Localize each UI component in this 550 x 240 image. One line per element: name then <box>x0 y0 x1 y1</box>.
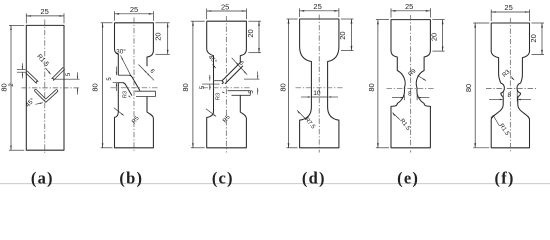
svg-text:10: 10 <box>313 90 321 97</box>
bottom grip (b) <box>115 83 154 148</box>
centerline horizontal (f) <box>486 88 536 90</box>
inclined slot from upper right (c) <box>222 63 240 81</box>
bottom grip (c) <box>207 81 247 148</box>
svg-text:R3: R3 <box>123 91 129 98</box>
svg-text:25: 25 <box>130 5 138 14</box>
svg-text:80: 80 <box>367 83 376 91</box>
svg-text:2: 2 <box>9 83 15 87</box>
dim 6 across strip (c) <box>232 58 247 75</box>
svg-text:(c): (c) <box>212 169 234 188</box>
centerline vertical (c) <box>225 16 227 153</box>
svg-text:20: 20 <box>338 31 347 39</box>
V-slot chevron (a) inner edge <box>35 91 57 102</box>
label R7.5 with leader (d) <box>297 110 300 113</box>
centerline vertical (f) <box>509 18 511 153</box>
svg-text:25: 25 <box>504 3 512 12</box>
svg-text:(e): (e) <box>397 169 419 188</box>
dim 25 top <box>490 10 492 22</box>
right slot bottom edge / tab (b) <box>136 96 156 98</box>
svg-text:(b): (b) <box>119 169 143 188</box>
svg-text:20: 20 <box>153 32 162 40</box>
centerline horizontal (e) <box>387 87 436 89</box>
svg-text:20: 20 <box>529 34 538 42</box>
dim 20 right <box>341 18 354 20</box>
svg-text:5: 5 <box>249 90 255 94</box>
centerline horizontal (b) <box>111 87 158 89</box>
dim 25 top <box>114 11 116 20</box>
svg-text:R7.5: R7.5 <box>303 117 316 131</box>
svg-text:R1.5: R1.5 <box>498 123 511 137</box>
centerline horizontal (c) <box>203 87 251 89</box>
svg-text:R9: R9 <box>407 67 418 78</box>
slot upper-left (a) <box>26 73 37 84</box>
svg-text:R5: R5 <box>131 115 141 125</box>
panel (a) specimen outline rectangle <box>26 25 64 150</box>
svg-text:R5: R5 <box>222 114 232 124</box>
dim 6 across strip (b) <box>139 65 155 81</box>
panel (f) specimen outline (notched R3) <box>491 23 529 148</box>
left slot top edge (b) <box>118 74 129 76</box>
svg-text:5: 5 <box>200 85 206 89</box>
dim 25 top <box>299 8 301 17</box>
slot upper-right (a) <box>52 67 64 78</box>
centerline vertical (e) <box>410 15 412 153</box>
svg-text:5: 5 <box>107 77 113 81</box>
label R5 with leader (b) <box>114 108 124 116</box>
svg-text:R3: R3 <box>216 93 222 100</box>
left slot lower edge (b) <box>118 82 123 84</box>
label R1.5 with leader (e) <box>393 113 396 116</box>
svg-text:80: 80 <box>278 83 287 91</box>
dim 2 left (a) <box>17 69 26 71</box>
centerline vertical (d) <box>318 15 320 153</box>
right slot top edge (b) <box>135 90 156 92</box>
dim 25 top <box>25 13 27 23</box>
dim 80 left <box>191 20 205 22</box>
svg-text:25: 25 <box>40 7 48 16</box>
left slot edges (c) <box>214 80 222 82</box>
dim 80 left <box>9 24 24 26</box>
dim 80 left <box>101 22 113 24</box>
svg-text:45°: 45° <box>24 96 37 109</box>
dim 10 neck (d) <box>301 96 310 98</box>
svg-text:8: 8 <box>408 91 412 98</box>
dim 25 top <box>206 9 208 20</box>
panel (b) specimen outline <box>115 23 154 67</box>
svg-text:30°: 30° <box>116 47 126 55</box>
panel (e) specimen outline (notched R9) <box>391 20 430 148</box>
svg-text:R1.5: R1.5 <box>398 118 411 132</box>
svg-text:(d): (d) <box>302 169 326 188</box>
svg-text:25: 25 <box>221 2 229 11</box>
dim 20 right <box>155 22 169 24</box>
right slot edges (c) <box>228 90 251 92</box>
svg-text:80: 80 <box>91 83 100 91</box>
dim 5 left (b) <box>113 82 123 84</box>
dim 5 right of strip (c) <box>244 78 260 80</box>
V-slot tip caps (a) <box>35 89 37 91</box>
svg-text:6: 6 <box>238 60 245 67</box>
label R1.5 with leader (f) <box>491 115 494 119</box>
svg-text:20: 20 <box>246 29 255 37</box>
centerline horizontal (a) <box>22 87 80 89</box>
svg-text:25: 25 <box>313 2 321 11</box>
svg-text:(f): (f) <box>495 169 515 188</box>
svg-text:45°: 45° <box>207 55 218 66</box>
svg-text:5: 5 <box>66 72 72 76</box>
centerline vertical (b) <box>133 18 135 153</box>
svg-text:80: 80 <box>464 84 473 92</box>
svg-text:6: 6 <box>148 68 155 75</box>
dim 20 right <box>432 19 444 21</box>
svg-text:80: 80 <box>181 83 190 91</box>
svg-text:(a): (a) <box>31 169 54 188</box>
dim 20 right <box>532 22 545 24</box>
centerline vertical (a) <box>44 20 46 155</box>
svg-text:8: 8 <box>507 92 511 99</box>
svg-text:R1.5: R1.5 <box>35 53 50 68</box>
dim 80 left <box>473 22 489 24</box>
centerline horizontal (d) <box>296 87 344 89</box>
dim 80 left <box>376 19 389 21</box>
light gray rule near bottom <box>0 183 550 185</box>
inclined strip edge 1 (b) <box>129 75 140 90</box>
inclined strip edge 2 (b) <box>123 83 132 96</box>
V-slot chevron (a) outer edge <box>36 90 56 99</box>
panel (d) specimen outline (dog-bone) <box>300 19 339 148</box>
dim 5 left (c) <box>209 75 211 81</box>
panel (c) specimen outline <box>207 21 247 62</box>
label R5 with leader (c) <box>206 109 216 117</box>
dim 5 right (a) <box>54 78 80 80</box>
dim 80 left <box>287 18 298 20</box>
dim 8 waist (e) <box>403 91 405 101</box>
svg-text:80: 80 <box>0 83 9 91</box>
svg-text:25: 25 <box>405 2 413 11</box>
dim 25 top <box>390 8 392 17</box>
dim 20 right <box>248 20 261 22</box>
svg-text:20: 20 <box>429 33 438 41</box>
dim 8 waist (f) <box>502 91 504 102</box>
